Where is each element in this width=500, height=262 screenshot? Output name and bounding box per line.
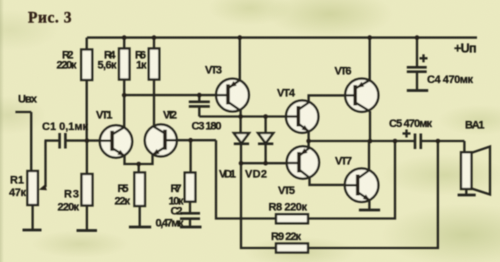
label +Un	[454, 42, 477, 56]
resistor R7	[169, 173, 196, 208]
wire R2 bottom to VT1 base node	[86, 80, 88, 141]
capacitor C1	[42, 121, 88, 149]
transistor VT5	[278, 146, 319, 197]
wire VD2 top lead	[264, 117, 266, 134]
wire VT4 collector to VT6 base	[309, 95, 355, 102]
wire R7 to C2	[189, 202, 191, 214]
ground under R5	[129, 226, 151, 229]
wire feedback riser R8 left	[216, 140, 277, 218]
wire C5 to speaker	[422, 140, 465, 142]
speaker BA1	[461, 120, 490, 195]
wire VT1 collector to VT3 base	[124, 94, 227, 96]
transistor VT7	[335, 156, 378, 203]
wire input to R1 top	[30, 112, 32, 171]
node VD1 top	[238, 114, 243, 119]
node VT1 collector	[122, 93, 127, 98]
wire VT3 emitter to rail	[239, 38, 241, 81]
wire output bus	[309, 140, 414, 142]
potentiometer R1	[9, 171, 38, 205]
transistor VT6	[335, 66, 379, 112]
resistor R5	[115, 173, 146, 208]
wire common emitters to R5	[138, 164, 140, 173]
wire R6 top lead	[153, 38, 155, 49]
node common emitters	[136, 162, 141, 167]
node R8 output	[393, 139, 398, 144]
wire wiper to C1	[45, 139, 59, 141]
ground under C4	[407, 89, 428, 92]
wire VT6 emitter to rail	[369, 38, 371, 81]
wire VT7 collector to output	[368, 141, 370, 171]
node VD1 bottom	[239, 161, 244, 166]
resistor R2	[57, 50, 93, 81]
input terminal Uвх	[15, 94, 37, 113]
ground under R1	[23, 229, 42, 232]
node rail VT3	[238, 35, 243, 40]
wire R2 top lead	[86, 38, 88, 50]
wire VD1 to lower bias wire	[240, 144, 242, 163]
R1 wiper arrow	[39, 141, 47, 191]
wire VT2 base node down to R7	[189, 140, 191, 173]
wire R4 top lead	[123, 38, 125, 49]
capacitor C2	[156, 206, 201, 230]
transistor VT2	[145, 110, 177, 157]
resistor R4	[98, 49, 130, 80]
node rail C4	[415, 35, 420, 40]
capacitor C5	[389, 118, 432, 149]
diode VD1	[219, 133, 249, 180]
wire top supply rail	[87, 36, 477, 38]
wire C3 to VT4 base	[199, 115, 297, 117]
wire C2 bottom lead	[189, 219, 191, 227]
resistor R6	[135, 49, 159, 80]
resistor R3	[58, 174, 93, 214]
diode VD2	[245, 133, 273, 180]
ground under VT7	[359, 209, 380, 212]
wire VT1 base node to R3	[86, 141, 88, 175]
wire VT6 collector to output	[369, 111, 371, 141]
wire speaker drop	[463, 141, 465, 152]
ground under C2	[180, 226, 202, 229]
node VT4 VT5 output	[306, 139, 311, 144]
wire VD2 to lower bias wire	[264, 144, 266, 163]
wire VT5 collector to output junction	[307, 141, 309, 148]
wire R4 bottom to VT1 collector	[123, 80, 125, 129]
transistor VT4	[277, 88, 318, 133]
node VD2 bottom	[263, 161, 268, 166]
resistor R9	[271, 231, 308, 253]
node VD2 top	[263, 114, 268, 119]
wire R1 bottom lead	[31, 205, 33, 230]
wire lower bias to VT5 base	[241, 162, 298, 164]
node VT1 base	[85, 138, 90, 143]
wire VT5 emitter to VT7 base	[310, 177, 357, 185]
capacitor C3	[189, 95, 222, 132]
ground under R3	[77, 229, 98, 232]
wire VT2 emitter	[139, 155, 153, 164]
node rail VT6	[367, 35, 372, 40]
wire R9 right to speaker node	[308, 141, 438, 248]
wire R3 bottom lead	[86, 206, 88, 231]
wire VT2 base to feedback node	[166, 139, 216, 141]
resistor R8	[269, 202, 309, 224]
wire C1 to VT1 base	[66, 139, 111, 141]
wire R5 bottom lead	[139, 206, 141, 227]
wire bias node down to R9	[241, 163, 277, 248]
node VT6 VT7 output	[368, 139, 373, 144]
node C5 speaker R9	[436, 139, 441, 144]
node rail R6	[152, 35, 157, 40]
node rail R4	[122, 35, 127, 40]
wire VT1 emitter	[125, 156, 139, 164]
wire R6 bottom to VT2 collector	[153, 80, 155, 127]
wire speaker bottom lead	[465, 189, 467, 195]
node C3 top	[197, 93, 202, 98]
wire VT3 collector down	[239, 110, 241, 133]
node R7 top	[188, 138, 193, 143]
wire VT7 emitter lead	[368, 200, 370, 210]
wire R8 right to output node	[308, 141, 395, 219]
transistor VT1	[96, 110, 132, 158]
transistor VT3	[205, 65, 249, 112]
caption Рис. 3	[28, 10, 72, 27]
capacitor C4	[407, 38, 474, 91]
ground under speaker	[458, 194, 476, 197]
wire VT4 emitter to output junction	[307, 131, 309, 141]
